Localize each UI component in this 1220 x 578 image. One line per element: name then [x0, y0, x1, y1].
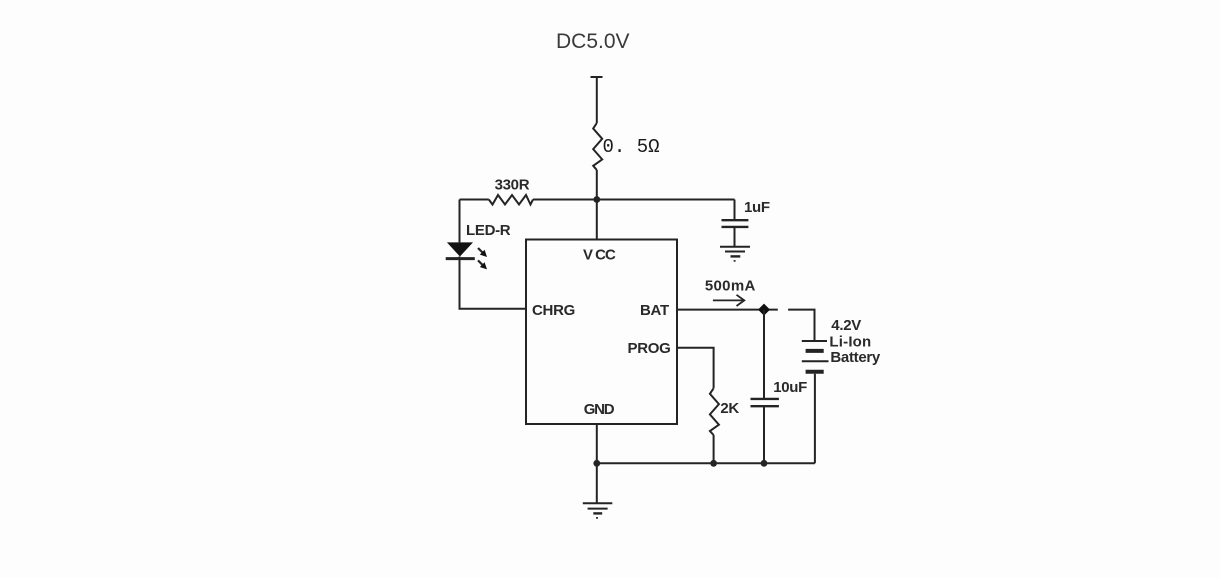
node junction at VCC rail: [593, 196, 600, 203]
wire: [596, 77, 598, 123]
svg-text:10uF: 10uF: [773, 379, 807, 396]
node junction 10uF: [761, 460, 768, 467]
wire: [763, 406, 765, 463]
power terminal: [591, 76, 603, 78]
svg-text:LED-R: LED-R: [466, 222, 511, 239]
svg-text:0. 5Ω: 0. 5Ω: [603, 136, 660, 158]
wire 10uF branch: [763, 310, 765, 399]
ground (main): [583, 503, 613, 518]
svg-text:4.2V: 4.2V: [831, 317, 861, 334]
wire PROG: [677, 348, 714, 389]
ground (1uF): [720, 247, 750, 261]
battery BT1: [802, 341, 829, 372]
wire: [596, 170, 598, 200]
svg-text:CHRG: CHRG: [532, 302, 575, 319]
IC U1 box: [526, 240, 677, 425]
resistor R 330R: [489, 195, 533, 205]
LED light arrows: [478, 248, 487, 269]
svg-text:500mA: 500mA: [705, 278, 756, 295]
wire: [460, 257, 527, 309]
wire GND pin: [596, 424, 598, 463]
node junction GND: [593, 460, 600, 467]
wire battery negative: [814, 374, 816, 464]
wire: [533, 200, 735, 240]
wire (after break): [788, 310, 814, 341]
svg-text:Battery: Battery: [830, 349, 881, 366]
wire 1uF branch: [734, 200, 736, 221]
svg-text:PROG: PROG: [628, 340, 671, 357]
node junction 2K: [710, 460, 717, 467]
resistor R 0.5ohm: [593, 123, 602, 170]
wire: [734, 227, 736, 247]
node junction BAT: [758, 304, 770, 316]
svg-text:BAT: BAT: [640, 302, 669, 319]
svg-text:1uF: 1uF: [744, 199, 770, 216]
wire BAT: [677, 309, 778, 311]
svg-text:GND: GND: [584, 401, 615, 418]
wire bottom rail: [597, 462, 815, 464]
wire to ground: [596, 463, 598, 503]
resistor R2 2K: [710, 388, 719, 435]
svg-text:DC5.0V: DC5.0V: [556, 30, 630, 53]
svg-text:2K: 2K: [720, 400, 739, 417]
svg-text:330R: 330R: [495, 176, 530, 193]
capacitor C1 1uF: [722, 220, 749, 227]
LED diode: [446, 242, 475, 258]
svg-text:Li-Ion: Li-Ion: [829, 334, 871, 351]
wire: [713, 435, 715, 463]
capacitor C2 10uF: [751, 399, 779, 406]
wire: [460, 199, 489, 201]
current arrow: [713, 295, 744, 306]
wire: [459, 200, 461, 243]
svg-text:V CC: V CC: [583, 247, 616, 264]
